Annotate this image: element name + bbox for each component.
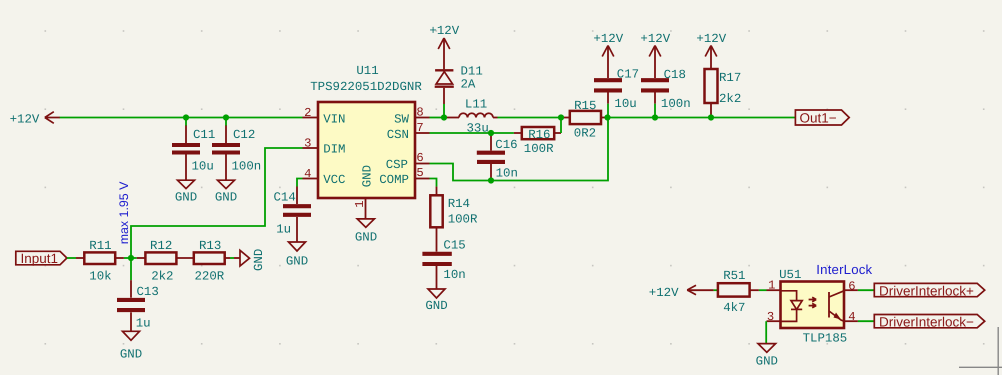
svg-text:GND: GND [360, 165, 374, 187]
svg-text:COMP: COMP [379, 173, 409, 187]
pin 1 GND of U11 [353, 165, 374, 219]
pin 4 (U51) [844, 310, 858, 324]
node junction C18 [652, 114, 658, 120]
svg-text:Input1: Input1 [21, 251, 59, 266]
svg-text:+12V: +12V [593, 32, 623, 46]
node junction C11 [183, 114, 189, 120]
resistor R12 [137, 239, 194, 283]
wire +12V rail to VIN [60, 117, 303, 119]
svg-text:C15: C15 [443, 239, 465, 253]
svg-text:R14: R14 [448, 197, 470, 211]
global label DriverInterlock+ [874, 283, 984, 298]
svg-text:+12V: +12V [429, 24, 459, 38]
svg-text:+12V: +12V [10, 113, 40, 127]
svg-text:DriverInterlock−: DriverInterlock− [879, 315, 974, 330]
pin 2 VIN [303, 106, 346, 126]
ground (C15) [425, 289, 447, 313]
svg-text:1: 1 [353, 200, 367, 207]
wire COMP to R14 [430, 179, 437, 187]
wire pin4 to DriverInterlock- [858, 320, 874, 322]
pin 1 (U51) [767, 279, 781, 293]
svg-text:TLP185: TLP185 [803, 332, 848, 346]
inductor L11 [459, 97, 493, 135]
resistor R16 [514, 127, 561, 156]
svg-text:GND: GND [286, 255, 308, 269]
node junction CSN/C16 [488, 130, 494, 136]
svg-text:10k: 10k [89, 269, 111, 283]
node junction R16/R15 [558, 114, 564, 120]
resistor R13 [194, 239, 230, 283]
resistor R11 [84, 239, 124, 283]
svg-text:C14: C14 [274, 190, 296, 204]
svg-text:GND: GND [756, 355, 778, 369]
svg-text:GND: GND [175, 190, 197, 204]
svg-text:C18: C18 [664, 68, 686, 82]
svg-text:0R2: 0R2 [574, 126, 596, 140]
svg-text:max 1.95 V: max 1.95 V [117, 181, 131, 244]
svg-text:3: 3 [304, 137, 311, 151]
resistor R14 [430, 187, 478, 252]
ground (C14) [286, 242, 308, 269]
ground (U51 pin 3) [756, 344, 778, 369]
wire pin3 to GND [765, 321, 767, 343]
svg-text:InterLock: InterLock [816, 262, 872, 277]
svg-text:2: 2 [304, 106, 311, 120]
pin 8 SW [394, 106, 429, 127]
svg-text:2k2: 2k2 [719, 92, 741, 106]
svg-text:VCC: VCC [323, 173, 345, 187]
svg-text:5: 5 [416, 166, 423, 180]
pin 3 (U51) [767, 310, 781, 324]
power +12V (left rail) [10, 112, 60, 127]
svg-text:GND: GND [355, 231, 377, 245]
transistor U51 TLP185 opto body [779, 268, 847, 346]
wire R11 to R12 [124, 257, 137, 259]
wire R13 to GND label [230, 257, 234, 259]
svg-text:GND: GND [252, 249, 266, 271]
capacitor C18 [641, 68, 691, 118]
op-amp U11 TPS922051D2DGNR body [310, 64, 422, 198]
svg-text:220R: 220R [195, 269, 225, 283]
capacitor C17 [594, 67, 639, 117]
ground (C12) [215, 180, 237, 204]
svg-text:2k2: 2k2 [151, 269, 173, 283]
node junction SW/D11/L11 [441, 114, 447, 120]
svg-text:L11: L11 [465, 97, 487, 111]
svg-text:100R: 100R [524, 142, 554, 156]
wire pin6 to DriverInterlock+ [858, 289, 874, 291]
wire CSP sense line [430, 118, 609, 181]
svg-text:+12V: +12V [696, 32, 726, 46]
svg-text:TPS922051D2DGNR: TPS922051D2DGNR [310, 80, 422, 94]
pin 6 (U51) [844, 280, 858, 294]
svg-text:100n: 100n [232, 160, 262, 174]
svg-text:CSN: CSN [387, 128, 409, 142]
svg-text:10u: 10u [192, 160, 214, 174]
svg-text:Out1−: Out1− [800, 110, 837, 125]
svg-text:CSP: CSP [386, 158, 408, 172]
svg-text:8: 8 [416, 106, 423, 120]
wire Input1 to R11 [67, 257, 76, 259]
svg-text:7: 7 [416, 121, 423, 135]
wire VCC to C14 [297, 179, 303, 187]
svg-text:1u: 1u [276, 223, 291, 237]
node junction R17 [708, 114, 714, 120]
svg-text:100R: 100R [448, 212, 478, 226]
svg-text:6: 6 [416, 151, 423, 165]
svg-text:1u: 1u [136, 317, 151, 331]
svg-text:R11: R11 [89, 239, 111, 253]
node junction C12 [223, 114, 229, 120]
pin 5 COMP [379, 166, 429, 187]
svg-text:DriverInterlock+: DriverInterlock+ [879, 284, 974, 299]
capacitor C12 [212, 118, 261, 181]
svg-text:R15: R15 [574, 99, 596, 113]
svg-text:6: 6 [848, 280, 855, 294]
svg-text:U11: U11 [356, 64, 378, 78]
capacitor C13 [117, 258, 159, 331]
power GND label (right of R13) [240, 249, 266, 271]
capacitor C11 [172, 118, 215, 181]
node junction output C17 [604, 114, 610, 120]
pin 3 DIM [303, 137, 346, 157]
power +12V (C17) [593, 32, 623, 78]
wire L11 to R15 [493, 117, 498, 119]
svg-text:C13: C13 [137, 285, 159, 299]
LED inside U51 [781, 291, 803, 322]
svg-text:DIM: DIM [323, 143, 345, 157]
svg-text:1: 1 [768, 279, 775, 293]
wire output rail to Out1- [608, 117, 796, 119]
pin 4 VCC [303, 167, 346, 187]
svg-text:GND: GND [120, 347, 142, 361]
svg-text:SW: SW [394, 113, 409, 127]
svg-text:R17: R17 [719, 71, 741, 85]
svg-text:R16: R16 [528, 128, 550, 142]
global label Out1- [795, 110, 849, 125]
pin 7 CSN [387, 121, 430, 142]
wire D11 to SW node [443, 104, 445, 118]
ground (C13) [120, 331, 142, 361]
wire DIM route [131, 148, 303, 258]
svg-text:10u: 10u [614, 97, 636, 111]
power +12V (opto) [649, 285, 714, 300]
global label DriverInterlock- [874, 315, 984, 330]
ground (U11 pin1) [355, 219, 377, 245]
svg-text:+12V: +12V [649, 286, 679, 300]
svg-text:10n: 10n [443, 268, 465, 282]
wire SW to L11 [430, 117, 445, 119]
global label Input1 [16, 251, 67, 266]
node junction C16 bottom [488, 177, 494, 183]
resistor R51 [718, 269, 759, 315]
wire R51 to U51 [759, 289, 767, 291]
svg-text:10n: 10n [496, 167, 518, 181]
svg-text:R13: R13 [199, 239, 221, 253]
svg-text:+12V: +12V [640, 32, 670, 46]
ground (C11) [175, 180, 197, 204]
svg-text:GND: GND [215, 190, 237, 204]
svg-text:C16: C16 [495, 138, 517, 152]
capacitor C16 [477, 133, 518, 181]
resistor R15 [561, 99, 608, 140]
svg-text:100n: 100n [661, 97, 691, 111]
light arrows inside U51 [809, 297, 817, 308]
power +12V (C18) [640, 32, 670, 78]
capacitor C15 [422, 239, 465, 289]
svg-text:D11: D11 [461, 64, 483, 78]
wire CSN [430, 132, 514, 134]
svg-text:C17: C17 [617, 67, 639, 81]
svg-text:3: 3 [767, 310, 774, 324]
svg-text:U51: U51 [779, 268, 801, 282]
phototransistor inside U51 [829, 291, 844, 321]
node junction divider [128, 255, 134, 261]
wire +12V to R51 [714, 289, 718, 291]
svg-text:2A: 2A [461, 78, 476, 92]
power +12V (R17) [696, 32, 726, 69]
wire R16 up to R15 left node [560, 118, 562, 134]
svg-text:4k7: 4k7 [723, 301, 745, 315]
svg-text:C12: C12 [233, 128, 255, 142]
svg-text:VIN: VIN [323, 113, 345, 127]
diode D11 [435, 64, 483, 104]
pin 6 CSP [386, 151, 430, 172]
svg-text:4: 4 [304, 167, 311, 181]
capacitor C14 [274, 187, 312, 243]
svg-text:C11: C11 [193, 128, 215, 142]
power +12V (D11) [429, 24, 459, 69]
svg-text:R51: R51 [723, 269, 745, 283]
resistor R17 [705, 69, 742, 118]
svg-text:4: 4 [848, 310, 855, 324]
svg-text:GND: GND [425, 299, 447, 313]
svg-text:R12: R12 [150, 239, 172, 253]
